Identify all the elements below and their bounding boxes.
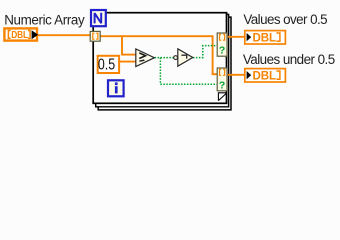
svg-text:Values over 0.5: Values over 0.5 <box>243 12 327 27</box>
svg-text:DBL: DBL <box>253 68 276 82</box>
svg-text:Numeric Array: Numeric Array <box>4 12 85 27</box>
svg-text:DBL: DBL <box>11 29 28 40</box>
svg-text:Values under 0.5: Values under 0.5 <box>243 52 335 67</box>
svg-text:?: ? <box>219 79 225 91</box>
svg-text:?: ? <box>219 45 225 57</box>
svg-text:0.5: 0.5 <box>98 55 115 73</box>
svg-text:DBL: DBL <box>253 30 276 44</box>
